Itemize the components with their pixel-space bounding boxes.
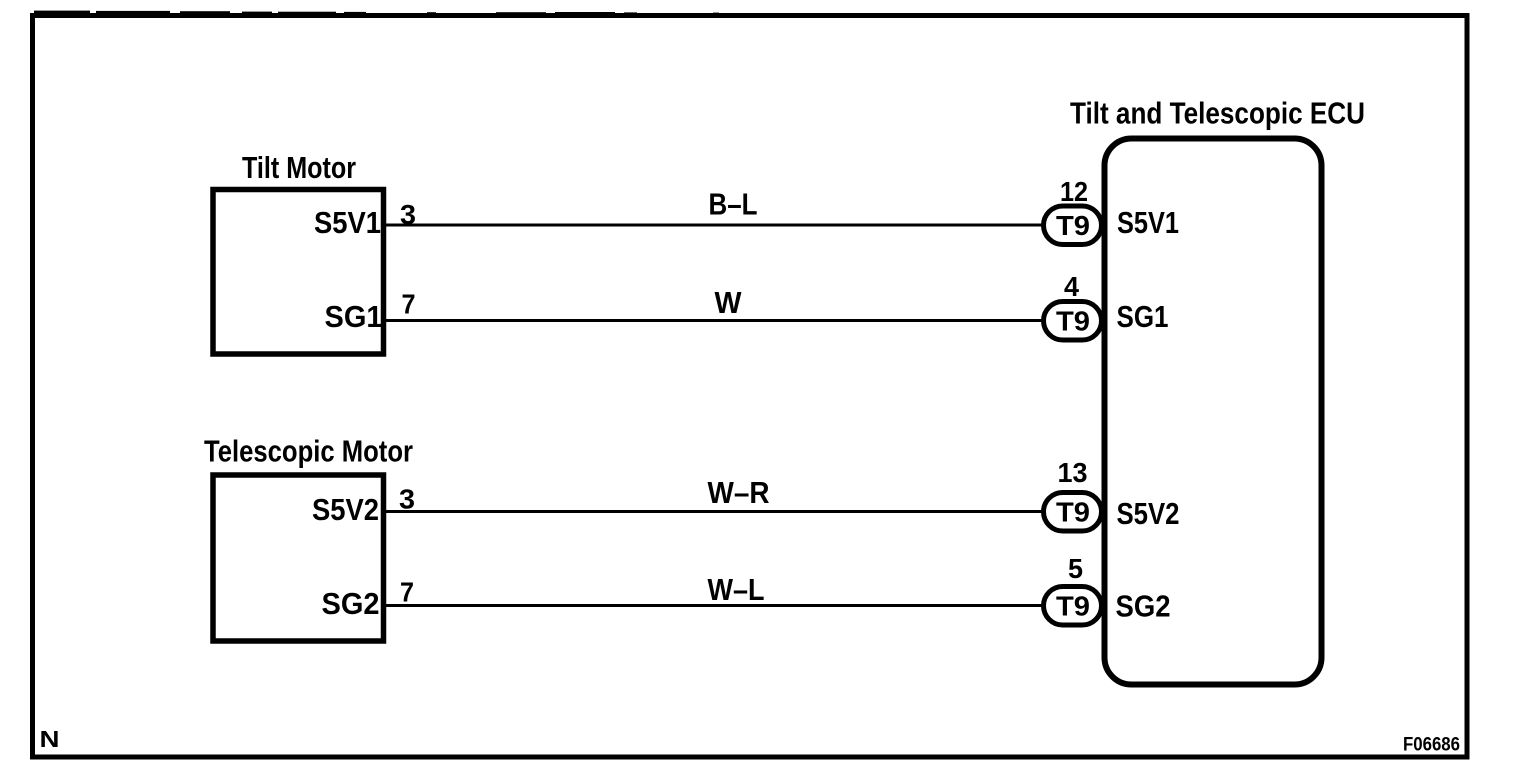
svg-text:7: 7 <box>400 577 414 608</box>
svg-text:7: 7 <box>402 289 416 320</box>
svg-text:Telescopic Motor: Telescopic Motor <box>204 434 413 469</box>
motor M1 Tilt Motor box <box>213 190 384 355</box>
svg-text:3: 3 <box>399 484 415 515</box>
ECU U1 Tilt and Telescopic ECU body <box>1105 139 1322 685</box>
svg-text:S5V1: S5V1 <box>314 205 381 240</box>
svg-text:T9: T9 <box>1056 497 1090 528</box>
svg-text:12: 12 <box>1060 176 1088 207</box>
svg-text:Tilt Motor: Tilt Motor <box>242 150 356 185</box>
svg-text:W–R: W–R <box>708 475 770 510</box>
svg-text:B–L: B–L <box>709 187 758 222</box>
svg-text:5: 5 <box>1068 553 1083 584</box>
wire W from Tilt Motor pin 7 to ECU terminal T9-4 <box>384 319 1043 322</box>
connector terminal T9 pin 13 oval <box>1044 493 1102 532</box>
svg-text:SG1: SG1 <box>1117 299 1169 334</box>
svg-text:F06686: F06686 <box>1403 735 1460 756</box>
svg-text:S5V2: S5V2 <box>312 492 379 527</box>
wire W-L from Telescopic Motor pin 7 to ECU terminal T9-5 <box>384 604 1043 607</box>
connector terminal T9 pin 12 oval <box>1044 206 1102 245</box>
svg-text:W–L: W–L <box>708 572 765 607</box>
svg-text:S5V2: S5V2 <box>1117 496 1180 531</box>
svg-text:13: 13 <box>1058 457 1088 488</box>
connector terminal T9 pin 5 oval <box>1044 587 1102 626</box>
svg-text:W: W <box>715 285 743 320</box>
svg-text:N: N <box>40 726 60 752</box>
motor M2 Telescopic Motor box <box>213 475 384 641</box>
svg-text:S5V1: S5V1 <box>1117 205 1179 240</box>
svg-text:T9: T9 <box>1056 591 1090 622</box>
svg-text:Tilt and Telescopic ECU: Tilt and Telescopic ECU <box>1070 96 1365 131</box>
connector terminal T9 pin 4 oval <box>1044 302 1102 341</box>
svg-text:SG1: SG1 <box>325 299 383 334</box>
wire B-L from Tilt Motor pin 3 to ECU terminal T9-12 <box>384 224 1043 227</box>
svg-text:T9: T9 <box>1056 210 1090 241</box>
svg-text:T9: T9 <box>1056 306 1090 337</box>
svg-text:4: 4 <box>1064 271 1079 302</box>
svg-text:SG2: SG2 <box>1116 589 1171 624</box>
svg-text:SG2: SG2 <box>322 586 380 621</box>
wire W-R from Telescopic Motor pin 3 to ECU terminal T9-13 <box>384 510 1043 513</box>
